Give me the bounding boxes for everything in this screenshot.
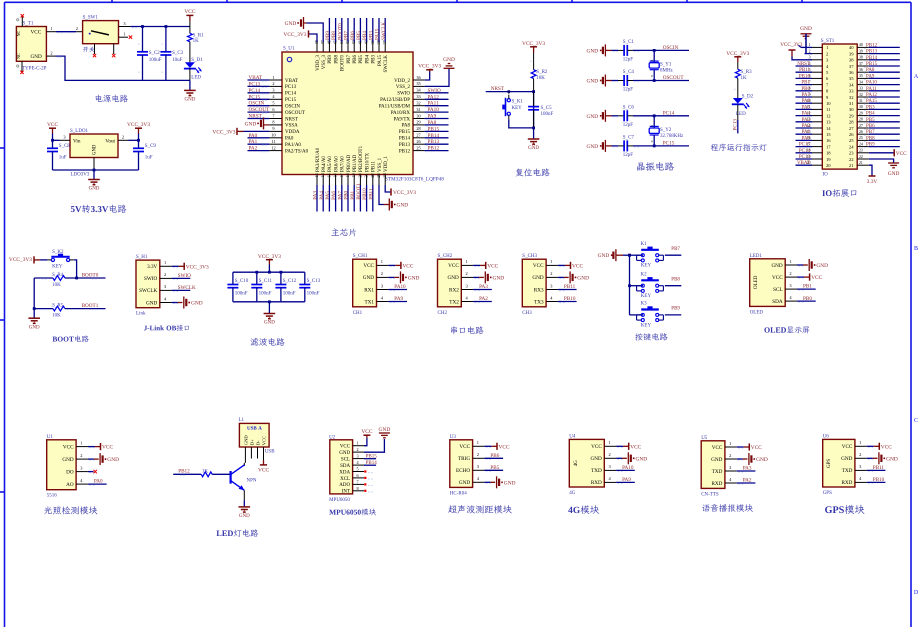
svg-text:PA6: PA6	[331, 191, 337, 200]
svg-text:VCC_3V3: VCC_3V3	[522, 41, 545, 47]
svg-text:25: 25	[416, 145, 420, 150]
svg-text:VDDA: VDDA	[285, 130, 300, 135]
svg-text:U3: U3	[450, 435, 457, 440]
svg-text:KEY: KEY	[641, 294, 652, 299]
svg-text:PA9: PA9	[428, 114, 437, 120]
svg-text:S_U1: S_U1	[283, 47, 295, 52]
svg-text:SCL: SCL	[773, 287, 783, 293]
svg-text:GND: GND	[107, 457, 119, 463]
svg-text:S_C4: S_C4	[623, 70, 635, 75]
svg-text:PB10: PB10	[799, 74, 811, 79]
svg-text:S_C7: S_C7	[623, 136, 635, 141]
svg-text:VCC_3V3: VCC_3V3	[212, 129, 235, 135]
svg-text:1: 1	[477, 440, 479, 445]
svg-text:HC-R04: HC-R04	[450, 491, 467, 496]
svg-text:100nF: 100nF	[259, 292, 272, 297]
svg-text:Link: Link	[136, 312, 146, 317]
svg-text:S_SW1: S_SW1	[83, 16, 99, 21]
svg-text:PB15: PB15	[866, 62, 878, 67]
svg-text:15: 15	[326, 173, 331, 177]
svg-text:PA0: PA0	[802, 136, 811, 141]
svg-text:RX3: RX3	[534, 287, 544, 293]
svg-text:PA6: PA6	[802, 99, 811, 104]
svg-text:RXD: RXD	[711, 481, 722, 487]
svg-text:PB5: PB5	[866, 118, 875, 123]
svg-text:PA1: PA1	[249, 139, 258, 145]
svg-text:GND: GND	[443, 57, 455, 63]
svg-text:CH2: CH2	[438, 311, 448, 316]
svg-text:9: 9	[650, 140, 654, 142]
svg-text:NRST: NRST	[491, 86, 505, 92]
svg-text:1: 1	[50, 26, 52, 31]
svg-text:PA1/A0: PA1/A0	[285, 143, 301, 148]
svg-text:29: 29	[416, 120, 420, 125]
svg-text:C: C	[914, 418, 918, 424]
svg-text:GND: GND	[886, 456, 898, 462]
svg-text:23: 23	[859, 149, 863, 153]
svg-text:PA3/RX/A0: PA3/RX/A0	[316, 147, 321, 172]
svg-text:VCC: VCC	[572, 263, 583, 269]
svg-text:SDA: SDA	[772, 299, 783, 305]
svg-text:PB13: PB13	[399, 143, 411, 148]
svg-text:21: 21	[849, 163, 854, 168]
svg-text:KEY: KEY	[512, 106, 523, 111]
svg-text:GND: GND	[577, 275, 589, 281]
svg-text:VCC: VCC	[102, 445, 113, 451]
svg-text:VSS_1: VSS_1	[378, 157, 383, 172]
svg-text:GND: GND	[816, 263, 828, 269]
svg-text:35: 35	[859, 74, 863, 78]
svg-text:15: 15	[826, 132, 831, 137]
svg-text:GND: GND	[598, 253, 610, 259]
svg-text:VCC: VCC	[184, 9, 195, 15]
svg-text:TXD: TXD	[842, 468, 853, 474]
svg-text:VCC: VCC	[751, 445, 762, 451]
svg-text:19: 19	[351, 173, 356, 177]
svg-text:PA10: PA10	[622, 465, 634, 471]
svg-text:VDD_3: VDD_3	[316, 55, 321, 71]
svg-text:VCC: VCC	[630, 444, 641, 450]
svg-text:VCC: VCC	[842, 444, 853, 450]
svg-text:INT: INT	[342, 490, 350, 495]
svg-text:OSCOUT: OSCOUT	[249, 107, 271, 113]
svg-text:TXD: TXD	[591, 468, 602, 474]
svg-text:PA7: PA7	[802, 93, 811, 98]
svg-text:PB0: PB0	[801, 87, 810, 92]
svg-text:PB11: PB11	[799, 68, 810, 73]
svg-text:GND: GND	[504, 480, 516, 486]
svg-text:VCC_3V3: VCC_3V3	[127, 122, 150, 128]
svg-text:VCC: VCC	[261, 436, 266, 445]
svg-text:S_C9: S_C9	[145, 144, 157, 149]
svg-text:PB7: PB7	[671, 247, 680, 252]
svg-text:1: 1	[80, 440, 82, 445]
svg-text:VCC_3V3: VCC_3V3	[9, 257, 32, 263]
svg-text:PA3: PA3	[479, 284, 488, 290]
svg-text:XDA: XDA	[339, 470, 350, 475]
svg-text:U1: U1	[47, 435, 54, 440]
svg-text:PB10: PB10	[564, 296, 576, 302]
svg-text:PB1/AD: PB1/AD	[353, 154, 358, 172]
svg-text:PB12: PB12	[428, 146, 440, 152]
svg-text:32: 32	[849, 95, 854, 100]
svg-text:SDA: SDA	[340, 464, 350, 469]
svg-text:12pF: 12pF	[623, 153, 634, 158]
svg-text:BOOT0: BOOT0	[82, 273, 99, 279]
svg-text:PA0: PA0	[249, 133, 258, 139]
svg-text:22: 22	[370, 173, 375, 177]
svg-text:S_C6: S_C6	[623, 106, 635, 111]
svg-text:PB6: PB6	[490, 453, 499, 459]
svg-text:GND: GND	[62, 457, 73, 463]
svg-text:33: 33	[849, 89, 854, 94]
svg-text:37: 37	[849, 64, 854, 69]
svg-text:20: 20	[357, 173, 362, 177]
svg-text:GND: GND	[264, 321, 275, 326]
svg-text:VCC: VCC	[47, 122, 58, 128]
svg-text:LED1: LED1	[750, 254, 763, 259]
svg-text:GND: GND	[756, 457, 768, 463]
svg-text:20: 20	[826, 163, 831, 168]
svg-text:2: 2	[809, 49, 811, 53]
svg-text:PA8: PA8	[402, 124, 411, 129]
svg-text:S_C8: S_C8	[59, 144, 71, 149]
svg-text:12pF: 12pF	[623, 88, 634, 93]
svg-text:S_T1: S_T1	[23, 22, 34, 27]
svg-text:10K: 10K	[52, 283, 61, 288]
svg-text:PB9: PB9	[671, 307, 680, 312]
svg-text:39: 39	[849, 51, 854, 56]
svg-text:GND: GND	[888, 171, 900, 177]
svg-text:27: 27	[859, 124, 863, 128]
svg-text:S_K1: S_K1	[512, 100, 524, 105]
svg-text:S_Y2: S_Y2	[660, 128, 672, 133]
svg-text:2: 2	[122, 135, 124, 140]
svg-text:LDO3V3: LDO3V3	[71, 173, 90, 178]
svg-text:PB12: PB12	[399, 149, 411, 154]
svg-text:S_Y1: S_Y1	[660, 63, 672, 68]
svg-text:1: 1	[381, 259, 383, 264]
svg-text:PB0: PB0	[344, 190, 350, 199]
svg-text:VSSA: VSSA	[285, 124, 298, 129]
svg-text:PA0: PA0	[94, 479, 103, 485]
svg-text:22: 22	[849, 157, 854, 162]
svg-text:VCC: VCC	[459, 444, 470, 450]
svg-text:11: 11	[826, 107, 831, 112]
svg-text:5: 5	[356, 467, 358, 472]
svg-text:GND: GND	[285, 21, 297, 27]
svg-text:PC14: PC14	[799, 149, 811, 154]
svg-text:VSS_2: VSS_2	[396, 85, 411, 90]
svg-text:25: 25	[849, 138, 854, 143]
svg-text:PC15: PC15	[249, 94, 261, 100]
svg-text:PB10: PB10	[873, 477, 885, 483]
svg-text:D-: D-	[255, 440, 260, 445]
svg-text:VCC_3V3: VCC_3V3	[726, 51, 749, 57]
svg-text:10: 10	[826, 101, 831, 106]
svg-text:PB7: PB7	[347, 55, 352, 64]
svg-text:GND: GND	[841, 456, 852, 462]
svg-text:PA6/A0: PA6/A0	[334, 156, 339, 172]
svg-text:35: 35	[416, 81, 420, 86]
svg-text:PB4: PB4	[866, 112, 875, 117]
svg-text:1: 1	[123, 32, 125, 37]
svg-text:VCC: VCC	[363, 263, 374, 269]
svg-text:PA12/USB/DP: PA12/USB/DP	[380, 98, 410, 103]
svg-text:GND: GND	[587, 114, 599, 120]
svg-text:PB5: PB5	[490, 465, 499, 471]
svg-text:S_R3: S_R3	[741, 70, 753, 75]
svg-text:1K: 1K	[193, 39, 200, 44]
svg-text:8MHz: 8MHz	[660, 69, 674, 74]
svg-text:PB14: PB14	[366, 461, 378, 466]
svg-text:PB10: PB10	[362, 188, 368, 200]
svg-text:PB11: PB11	[368, 188, 374, 200]
svg-text:STM32F103C8T6_LQFP48: STM32F103C8T6_LQFP48	[385, 177, 444, 183]
svg-text:28: 28	[849, 120, 854, 125]
svg-text:PB2/BOOT1: PB2/BOOT1	[359, 145, 364, 172]
svg-text:PB3: PB3	[372, 55, 377, 64]
svg-text:GND: GND	[29, 325, 40, 330]
svg-text:PA15: PA15	[866, 99, 877, 104]
svg-text:100nF: 100nF	[283, 292, 296, 297]
svg-text:PA2: PA2	[479, 296, 488, 302]
svg-text:PA2: PA2	[743, 478, 752, 484]
svg-text:2: 2	[76, 26, 78, 31]
svg-text:25: 25	[859, 136, 863, 140]
svg-text:SCL: SCL	[341, 457, 350, 462]
svg-text:2: 2	[729, 453, 731, 458]
svg-text:D+: D+	[249, 439, 254, 445]
svg-text:10K: 10K	[536, 76, 545, 81]
svg-text:PA11: PA11	[428, 101, 440, 107]
svg-text:RXD: RXD	[841, 480, 852, 486]
svg-text:3.3V: 3.3V	[147, 264, 157, 270]
svg-text:PB6: PB6	[353, 55, 358, 64]
svg-text:SWCLK: SWCLK	[384, 55, 389, 73]
svg-text:S_ST1: S_ST1	[821, 39, 835, 44]
svg-text:NRST: NRST	[797, 62, 810, 67]
svg-text:VDD_2: VDD_2	[394, 79, 410, 84]
svg-text:100uF: 100uF	[149, 58, 162, 63]
svg-text:PA10: PA10	[394, 284, 406, 290]
svg-text:PA15: PA15	[375, 28, 381, 40]
svg-text:PC15: PC15	[285, 98, 297, 103]
svg-text:PA4: PA4	[802, 112, 811, 117]
svg-text:PA9: PA9	[394, 296, 403, 302]
svg-text:PB11: PB11	[873, 465, 885, 471]
svg-text:PA11: PA11	[866, 87, 877, 92]
svg-text:IO: IO	[823, 173, 829, 178]
svg-text:GND: GND	[379, 427, 391, 433]
svg-text:PC15: PC15	[663, 141, 675, 147]
svg-text:U6: U6	[823, 434, 830, 439]
svg-text:1: 1	[465, 259, 467, 264]
svg-text:PB9: PB9	[866, 143, 875, 148]
svg-text:PB6: PB6	[350, 31, 356, 40]
svg-text:DO: DO	[66, 469, 74, 475]
svg-text:1: 1	[809, 43, 811, 47]
svg-text:PB14: PB14	[399, 137, 411, 142]
svg-text:NC: NC	[16, 53, 21, 59]
svg-text:A: A	[914, 74, 919, 80]
svg-text:TXD: TXD	[712, 469, 723, 475]
svg-text:PA12: PA12	[428, 94, 440, 100]
svg-text:VCC_3V3: VCC_3V3	[393, 190, 416, 196]
svg-text:PC14: PC14	[663, 110, 675, 116]
svg-text:14: 14	[826, 126, 831, 131]
svg-text:4G: 4G	[569, 491, 576, 496]
svg-text:OSCOUT: OSCOUT	[663, 75, 685, 81]
svg-text:VBAT: VBAT	[249, 75, 263, 81]
svg-text:GND: GND	[408, 275, 420, 281]
svg-text:40: 40	[859, 43, 863, 47]
svg-text:36: 36	[859, 68, 863, 72]
svg-text:PC13: PC13	[285, 85, 297, 90]
svg-text:17: 17	[826, 144, 831, 149]
svg-text:PB15: PB15	[399, 130, 411, 135]
svg-text:GND: GND	[363, 275, 374, 281]
svg-text:PA3: PA3	[743, 466, 752, 472]
svg-text:6: 6	[356, 473, 358, 478]
svg-text:PA3: PA3	[313, 191, 319, 200]
svg-text:VCC: VCC	[63, 444, 74, 450]
svg-text:USB: USB	[265, 449, 275, 454]
svg-text:PA5: PA5	[325, 191, 331, 200]
svg-text:PB0: PB0	[803, 296, 812, 302]
svg-text:5: 5	[272, 101, 274, 106]
svg-text:NPN: NPN	[247, 478, 257, 483]
svg-text:TX2: TX2	[449, 299, 459, 305]
svg-text:PB5: PB5	[356, 31, 362, 40]
svg-text:10uF: 10uF	[172, 58, 183, 63]
svg-text:PB3: PB3	[866, 105, 875, 110]
svg-text:S_C12: S_C12	[283, 279, 297, 284]
svg-text:22: 22	[859, 155, 863, 159]
svg-text:MPU6050: MPU6050	[329, 498, 350, 503]
svg-text:GND: GND	[239, 514, 250, 519]
svg-text:OSCIN: OSCIN	[249, 101, 265, 107]
svg-text:KEY: KEY	[641, 323, 652, 328]
svg-text:GND: GND	[146, 300, 157, 306]
svg-text:PB5: PB5	[359, 55, 364, 64]
svg-text:18: 18	[826, 151, 831, 156]
svg-text:LED: LED	[191, 76, 201, 81]
svg-text:GND: GND	[771, 263, 782, 269]
svg-text:40: 40	[849, 45, 854, 50]
svg-text:PB8: PB8	[331, 31, 337, 40]
svg-text:GND: GND	[800, 26, 812, 32]
svg-text:36: 36	[849, 70, 854, 75]
svg-text:1: 1	[356, 441, 358, 446]
svg-text:PC13: PC13	[249, 81, 261, 87]
svg-text:GND: GND	[532, 275, 543, 281]
svg-text:32.768KHz: 32.768KHz	[660, 134, 684, 139]
svg-text:9: 9	[650, 125, 654, 127]
svg-text:34: 34	[849, 82, 854, 87]
svg-text:BOOT0: BOOT0	[341, 55, 346, 72]
svg-text:SWIO: SWIO	[397, 92, 410, 97]
svg-text:GPS: GPS	[823, 491, 832, 496]
svg-text:S_C1: S_C1	[623, 40, 635, 45]
svg-text:10: 10	[271, 133, 275, 138]
svg-text:VCC: VCC	[402, 263, 413, 269]
svg-text:38: 38	[859, 56, 863, 60]
svg-text:S_C10: S_C10	[235, 279, 249, 284]
svg-text:PA2/TS/A0: PA2/TS/A0	[285, 149, 309, 154]
svg-text:S_H1: S_H1	[136, 255, 148, 260]
svg-text:NC: NC	[16, 30, 21, 36]
svg-text:S_CH3: S_CH3	[522, 254, 537, 259]
svg-text:100nF: 100nF	[541, 112, 554, 117]
svg-text:SWIO: SWIO	[178, 273, 192, 279]
svg-text:VCC: VCC	[772, 275, 783, 281]
svg-text:26: 26	[849, 132, 854, 137]
svg-text:VCC_3V3: VCC_3V3	[258, 254, 281, 260]
svg-text:100nF: 100nF	[307, 292, 320, 297]
svg-text:PB0/AD: PB0/AD	[347, 154, 352, 172]
svg-text:PB11: PB11	[372, 161, 377, 172]
svg-text:12pF: 12pF	[623, 58, 634, 63]
svg-text:11: 11	[271, 139, 275, 144]
svg-text:PB14: PB14	[428, 133, 440, 139]
svg-text:9: 9	[272, 126, 274, 131]
svg-text:PB9: PB9	[328, 55, 333, 64]
svg-text:GND: GND	[587, 144, 599, 150]
svg-text:1uF: 1uF	[145, 156, 153, 161]
svg-text:PC15: PC15	[799, 143, 811, 148]
svg-text:GND: GND	[448, 275, 459, 281]
svg-text:1: 1	[164, 260, 166, 265]
svg-text:GND: GND	[191, 301, 203, 307]
svg-text:GPS: GPS	[827, 459, 832, 468]
svg-text:VBAT: VBAT	[797, 161, 810, 166]
svg-text:GND: GND	[493, 275, 505, 281]
svg-text:30: 30	[859, 105, 863, 109]
svg-text:2: 2	[381, 271, 383, 276]
svg-text:PA7/A0: PA7/A0	[341, 156, 346, 172]
svg-text:K1: K1	[641, 242, 648, 247]
svg-text:3: 3	[356, 454, 358, 459]
svg-text:S_LDO1: S_LDO1	[70, 129, 89, 134]
svg-text:PC14: PC14	[249, 88, 261, 94]
svg-text:GND: GND	[89, 187, 100, 192]
svg-text:PB4: PB4	[365, 55, 370, 64]
svg-text:2: 2	[272, 81, 274, 86]
svg-text:GND: GND	[93, 144, 98, 155]
svg-text:GND: GND	[587, 48, 599, 54]
svg-text:9: 9	[650, 59, 654, 61]
svg-text:PC13: PC13	[799, 155, 811, 160]
svg-text:PA1: PA1	[802, 130, 811, 135]
svg-text:S_CH1: S_CH1	[353, 254, 368, 259]
svg-text:PB13: PB13	[866, 50, 878, 55]
svg-text:PB1: PB1	[803, 284, 812, 290]
svg-text:VCC: VCC	[487, 263, 498, 269]
svg-text:OSCIN: OSCIN	[285, 105, 300, 110]
svg-text:27: 27	[849, 126, 854, 131]
svg-text:PB12: PB12	[178, 468, 190, 474]
svg-text:GND: GND	[243, 435, 248, 446]
svg-text:12: 12	[826, 113, 831, 118]
svg-text:1: 1	[859, 440, 861, 445]
svg-text:PB9: PB9	[325, 31, 331, 40]
svg-text:B: B	[914, 246, 918, 252]
svg-text:PB8: PB8	[866, 136, 875, 141]
svg-text:U5: U5	[701, 436, 708, 441]
svg-text:PA12: PA12	[866, 93, 877, 98]
svg-text:VCC: VCC	[533, 263, 544, 269]
